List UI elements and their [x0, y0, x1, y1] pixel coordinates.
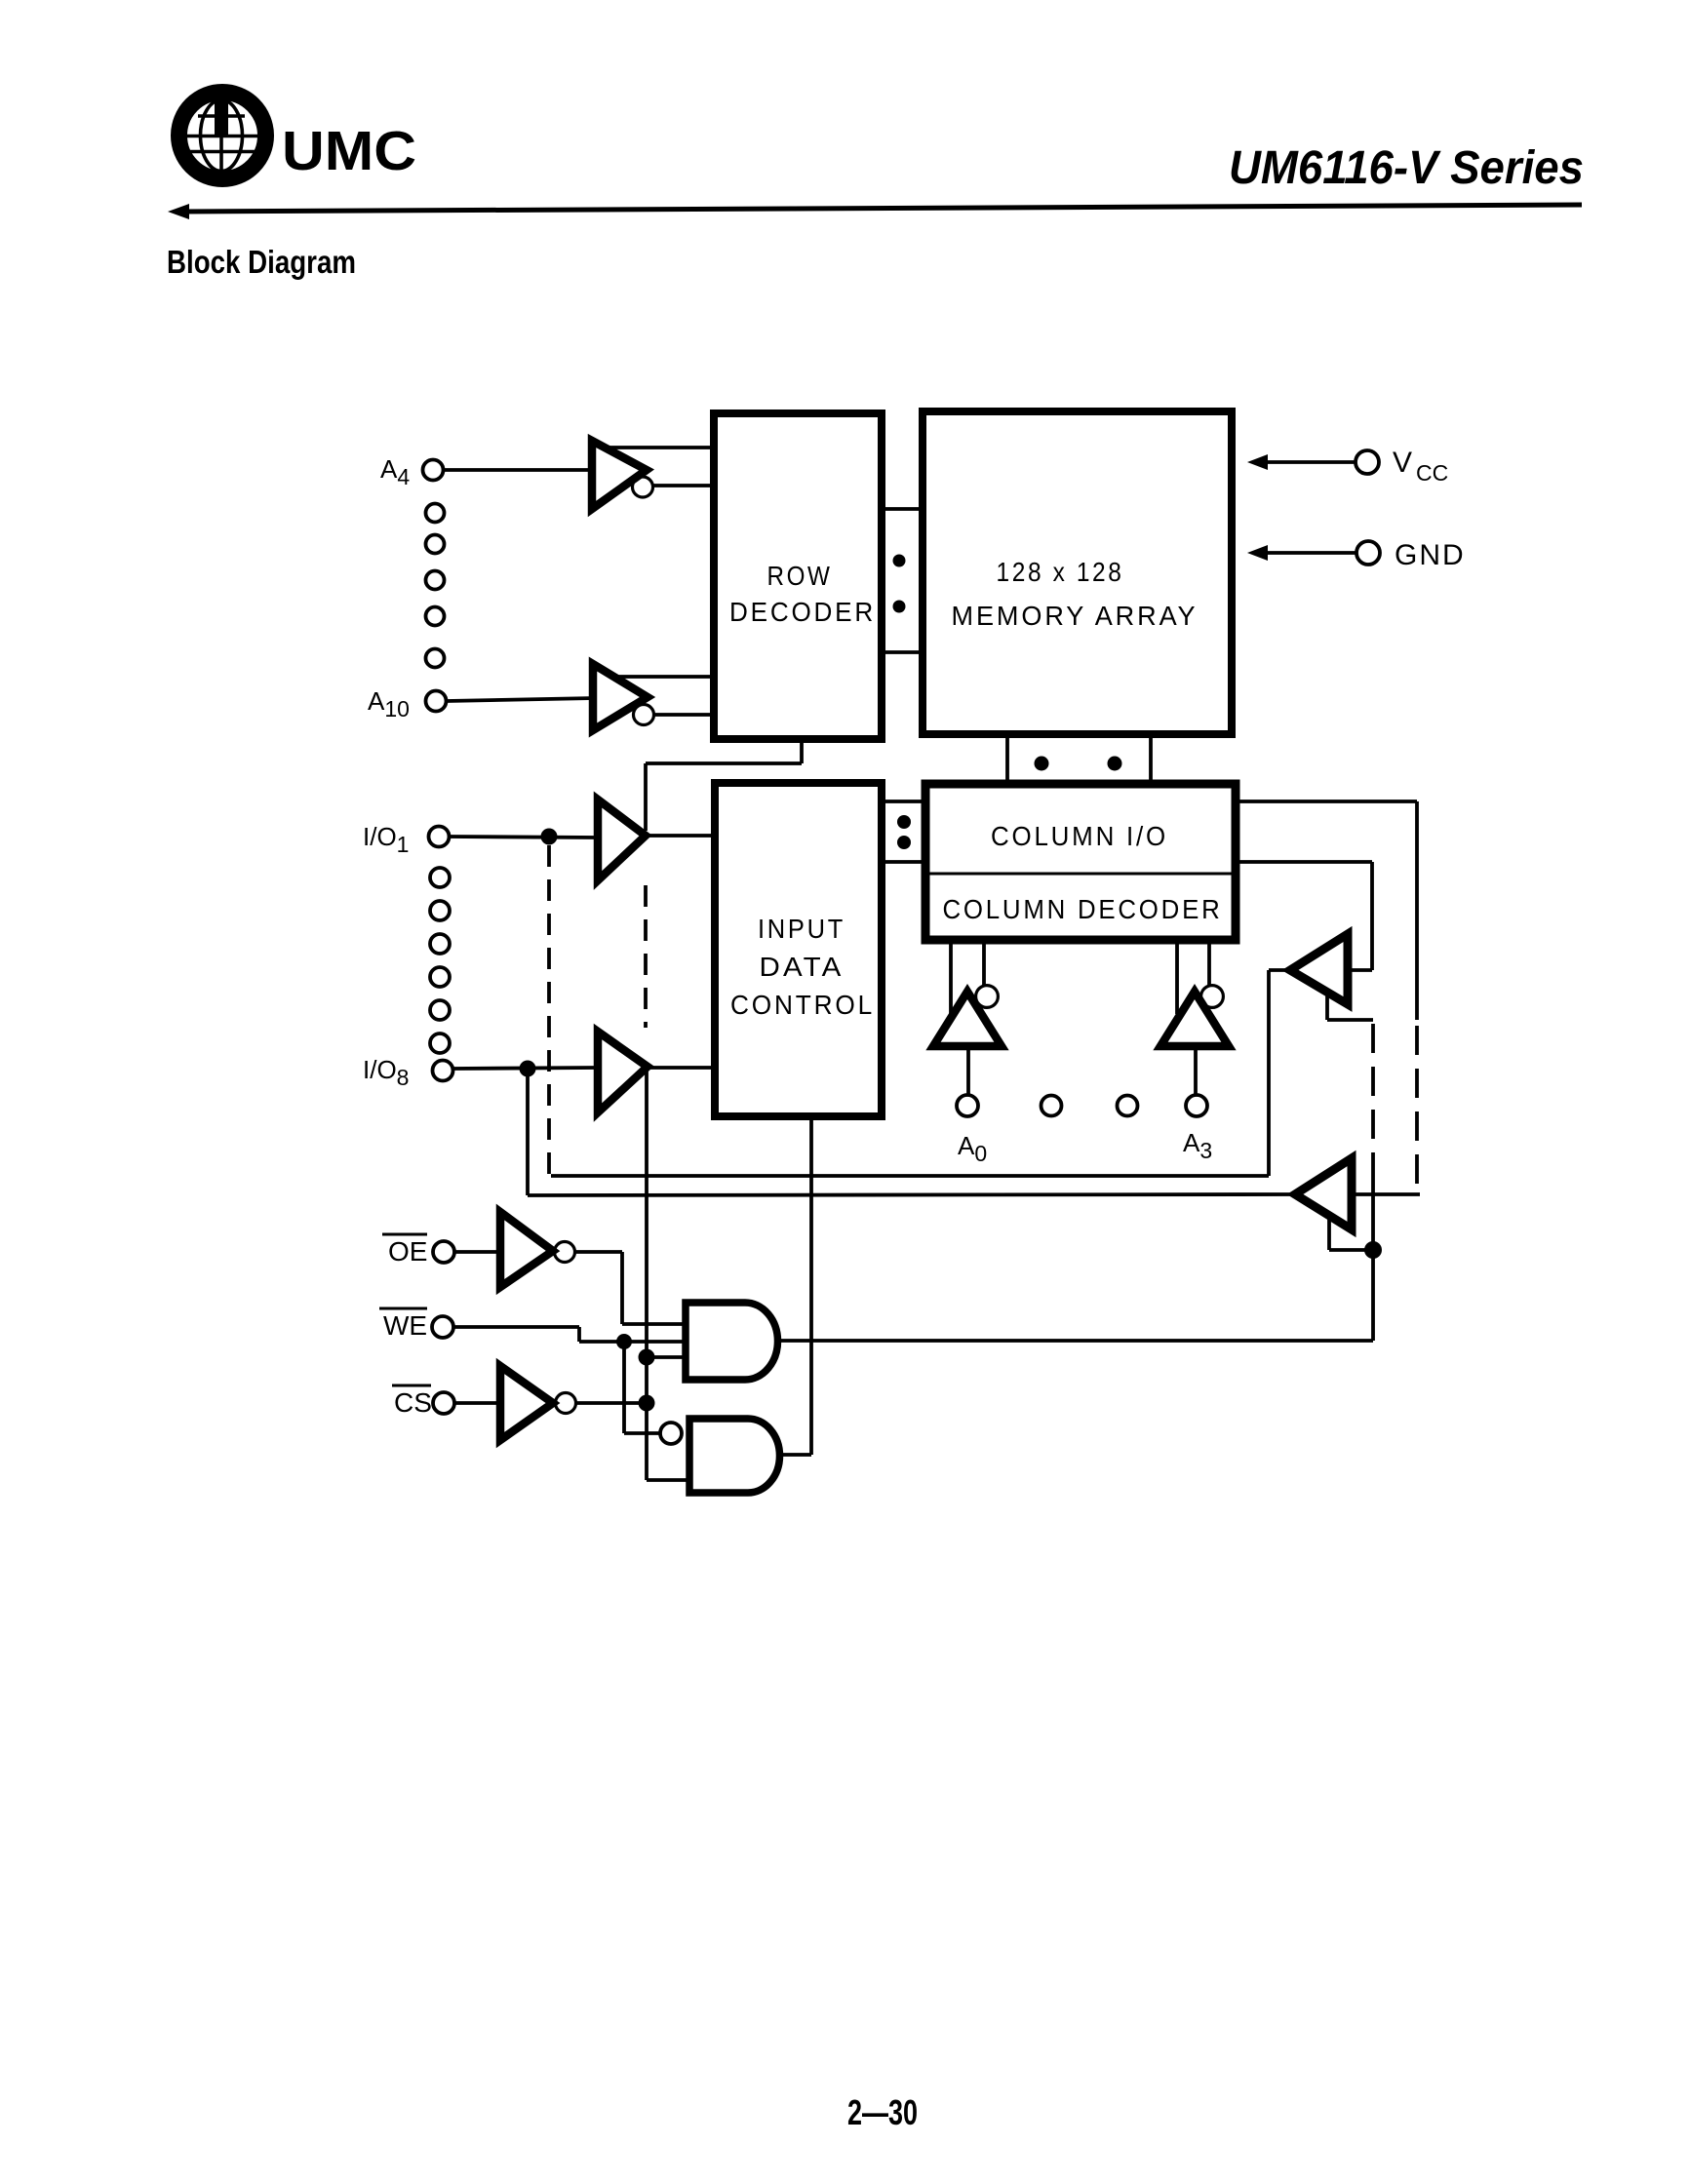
- svg-text:A0: A0: [958, 1131, 987, 1166]
- svg-text:UM6116-V Series: UM6116-V Series: [1229, 142, 1584, 194]
- svg-text:CC: CC: [1416, 460, 1448, 486]
- svg-text:CS: CS: [394, 1387, 432, 1418]
- svg-text:128 x 128: 128 x 128: [997, 557, 1124, 587]
- svg-text:I/O8: I/O8: [363, 1055, 409, 1090]
- svg-text:UMC: UMC: [282, 120, 416, 182]
- svg-text:I/O1: I/O1: [363, 822, 409, 857]
- svg-text:WE: WE: [383, 1310, 427, 1341]
- svg-text:A10: A10: [368, 686, 410, 721]
- svg-text:2—30: 2—30: [847, 2092, 918, 2132]
- svg-text:DATA: DATA: [760, 952, 845, 982]
- svg-text:GND: GND: [1395, 539, 1466, 571]
- svg-text:COLUMN I/O: COLUMN I/O: [991, 821, 1168, 851]
- svg-text:DECODER: DECODER: [729, 597, 876, 627]
- svg-text:V: V: [1393, 447, 1412, 479]
- svg-text:OE: OE: [388, 1236, 427, 1267]
- svg-text:INPUT: INPUT: [758, 914, 845, 944]
- svg-text:MEMORY ARRAY: MEMORY ARRAY: [952, 601, 1199, 631]
- svg-text:Block Diagram: Block Diagram: [167, 244, 356, 280]
- svg-text:A3: A3: [1183, 1128, 1212, 1163]
- svg-text:COLUMN DECODER: COLUMN DECODER: [943, 894, 1223, 924]
- svg-text:ROW: ROW: [767, 561, 833, 591]
- svg-text:A4: A4: [380, 454, 410, 489]
- svg-text:CONTROL: CONTROL: [730, 990, 875, 1020]
